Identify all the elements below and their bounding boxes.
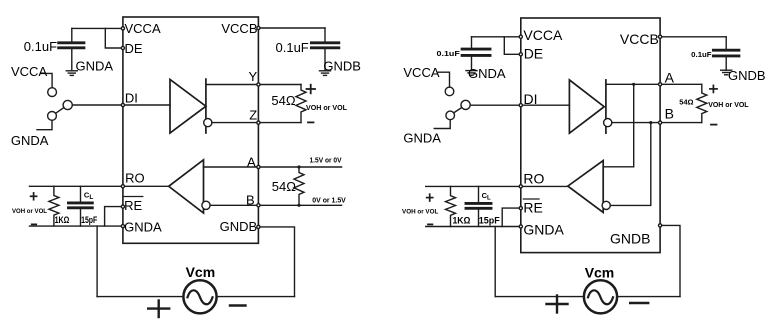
- svg-text:DE: DE: [524, 46, 543, 62]
- pin dot VCCA: [121, 27, 124, 30]
- wire Vcm bottom right: [217, 296, 295, 298]
- capacitor C4 0.1uF plates: [713, 50, 739, 56]
- wire GNDA drop to Vcm loop (right): [494, 227, 496, 297]
- source Vcm circle (right): [584, 280, 617, 313]
- capacitor CL bottom stub: [80, 209, 82, 226]
- svg-text:Z: Z: [249, 108, 257, 123]
- wire VCCA pin to bypass cap (right): [472, 36, 521, 38]
- svg-text:15pF: 15pF: [479, 215, 501, 225]
- wire DI inside box to driver (right): [521, 104, 570, 106]
- small plus RO load (right): [427, 194, 433, 201]
- pin dot VCCA (right): [519, 35, 522, 38]
- switch S1 wire from VCCA label: [41, 73, 53, 87]
- capacitor C2 bottom stub: [324, 49, 326, 71]
- svg-text:B: B: [246, 193, 255, 208]
- svg-text:RO: RO: [523, 170, 544, 186]
- minus sign Vcm: [230, 304, 246, 306]
- ground GNDA under C1: [66, 71, 77, 76]
- svg-text:0.1uF: 0.1uF: [276, 40, 309, 55]
- wire B output: [612, 122, 702, 124]
- pin dot VCCB (right): [659, 35, 662, 38]
- pin dot RE: [121, 205, 124, 208]
- svg-text:RO: RO: [125, 170, 145, 185]
- small minus B load: [711, 124, 717, 126]
- driver D1 output bar: [205, 79, 207, 133]
- resistor R1 54ohm driver load: [296, 85, 306, 123]
- switch S2 pole contact: [461, 100, 470, 109]
- svg-text:VCCA: VCCA: [11, 64, 47, 79]
- svg-text:GNDA: GNDA: [523, 221, 564, 237]
- pin dot GNDB: [257, 225, 260, 228]
- pin dot GNDB (right): [659, 224, 662, 227]
- svg-text:54Ω: 54Ω: [679, 97, 693, 106]
- capacitor C2 0.1uF plates: [311, 43, 338, 48]
- switch S1 arm: [56, 108, 64, 114]
- svg-text:VOH or VOL: VOH or VOL: [12, 208, 47, 215]
- small minus RO load: [32, 223, 36, 225]
- switch S1 throw contact GNDA: [48, 112, 57, 121]
- svg-text:VCCA: VCCA: [403, 65, 439, 80]
- wire VCCB to bypass cap (right): [660, 36, 726, 38]
- driver D2 triangle: [569, 80, 604, 133]
- wire VCCB to bypass cap: [258, 27, 325, 29]
- receiver inverting bubble (right): [602, 201, 610, 209]
- pin dot GNDA: [121, 225, 124, 228]
- source Vcm circle: [183, 280, 216, 313]
- wire A feedback vertical: [603, 84, 634, 167]
- IC box U1: [123, 17, 259, 243]
- svg-text:VCCA: VCCA: [125, 21, 161, 36]
- junction dot A feedback: [632, 83, 635, 86]
- resistor R4 54ohm load: [697, 84, 707, 122]
- pin dot RO (right): [519, 185, 522, 188]
- svg-text:1.5V or 0V: 1.5V or 0V: [310, 156, 342, 165]
- receiver R1 triangle: [169, 160, 204, 213]
- wire DI input (right): [470, 104, 521, 106]
- wire DI inside box to driver: [123, 104, 170, 106]
- driver D1 inverting bubble: [204, 119, 212, 127]
- capacitor CL2 15pF top stub: [478, 186, 480, 202]
- small minus RO load (right): [428, 223, 432, 225]
- svg-text:VOH or VOL: VOH or VOL: [708, 100, 749, 109]
- small minus Z load: [308, 121, 314, 123]
- wire ground rail under load (right): [426, 226, 521, 228]
- svg-text:GNDB: GNDB: [728, 68, 766, 83]
- driver D2 output bar: [605, 80, 607, 133]
- resistor R3 1Kohm load: [49, 186, 59, 226]
- svg-text:GNDA: GNDA: [124, 219, 162, 234]
- wire VCCA-DE strap: [105, 28, 123, 48]
- svg-text:0.1uF: 0.1uF: [24, 39, 57, 54]
- svg-text:0.1uF: 0.1uF: [437, 49, 461, 58]
- small plus RO load: [31, 193, 37, 200]
- resistor R2 54ohm receiver input: [294, 167, 304, 205]
- capacitor C2 0.1uF top stub: [324, 28, 326, 41]
- wire DI input: [72, 104, 123, 106]
- svg-text:GNDB: GNDB: [220, 219, 258, 234]
- svg-text:GNDA: GNDA: [76, 58, 114, 73]
- switch S2 wire to GNDA label: [434, 120, 450, 129]
- pin dot RO: [121, 185, 124, 188]
- pin dot B: [257, 204, 260, 207]
- svg-text:15pF: 15pF: [81, 215, 98, 225]
- driver D2 inverting bubble: [604, 119, 612, 127]
- capacitor CL2 15pF plates: [466, 203, 491, 208]
- svg-text:Vcm: Vcm: [186, 264, 216, 280]
- svg-text:DI: DI: [125, 91, 138, 106]
- switch S2 arm: [454, 108, 462, 113]
- svg-text:A: A: [665, 69, 675, 85]
- svg-text:1KΩ: 1KΩ: [55, 215, 70, 225]
- svg-text:Y: Y: [249, 69, 258, 84]
- wire Y output: [206, 84, 301, 86]
- wire Vcm bottom left: [97, 296, 183, 298]
- source Vcm sine (right): [588, 290, 613, 304]
- svg-text:RE: RE: [124, 198, 142, 213]
- plus sign Vcm (right): [547, 296, 568, 313]
- RE overline (right): [523, 198, 539, 200]
- pin dot DE: [121, 46, 124, 49]
- wire RO output (right): [426, 185, 521, 187]
- minus sign Vcm (right): [630, 302, 648, 304]
- capacitor C1 bottom stub: [71, 49, 73, 71]
- capacitor C1 0.1uF plates: [59, 43, 84, 48]
- junction dot B-R2: [297, 204, 300, 207]
- wire A input: [204, 166, 342, 168]
- pin dot A: [257, 165, 260, 168]
- pin dot B (right): [659, 121, 662, 124]
- svg-text:VOH or VOL: VOH or VOL: [306, 103, 347, 112]
- svg-text:VCCB: VCCB: [620, 31, 659, 47]
- IC box U2: [521, 18, 660, 253]
- junction dot B feedback: [649, 121, 652, 124]
- ground GNDB under C2: [320, 71, 331, 76]
- svg-text:VCCB: VCCB: [221, 21, 257, 36]
- small plus Y load: [307, 85, 316, 94]
- capacitor C4 bottom stub: [725, 57, 727, 70]
- capacitor C3 0.1uF top stub: [471, 37, 473, 48]
- wire RO inside box (right): [521, 185, 568, 187]
- capacitor CL 15pF top stub: [80, 186, 82, 201]
- pin dot GNDA (right): [519, 225, 522, 228]
- pin dot DE (right): [519, 53, 522, 56]
- ground GNDA under C3: [466, 71, 477, 76]
- svg-text:B: B: [665, 106, 674, 122]
- wire Z output: [212, 122, 301, 124]
- svg-text:RE: RE: [523, 200, 542, 216]
- wire RE tie-down strap: [105, 207, 123, 227]
- switch S1 throw contact VCCA: [48, 88, 57, 97]
- switch S1 wire to GNDA label: [37, 120, 52, 129]
- pin dot DI: [121, 103, 124, 106]
- pin dot RE (right): [519, 207, 522, 210]
- pin dot VCCB: [257, 26, 260, 29]
- svg-text:0.1uF: 0.1uF: [691, 50, 712, 59]
- svg-text:GNDA: GNDA: [403, 130, 441, 145]
- svg-text:GNDA: GNDA: [468, 66, 506, 81]
- wire Vcm up to GNDB: [258, 227, 294, 297]
- wire RE tie-down strap (right): [502, 208, 521, 226]
- pin dot Y: [257, 83, 260, 86]
- plus sign Vcm: [148, 301, 169, 318]
- wire VCCA-DE strap (right): [504, 37, 521, 55]
- pin dot DI (right): [519, 104, 522, 107]
- switch S2 wire from VCCA label: [438, 72, 449, 87]
- svg-text:DI: DI: [524, 91, 538, 107]
- receiver inverting bubble on B input: [202, 201, 210, 209]
- ground GNDB under C4: [721, 70, 732, 75]
- svg-text:A: A: [247, 154, 256, 169]
- source Vcm sine: [188, 290, 213, 304]
- capacitor C4 0.1uF top stub: [725, 37, 727, 49]
- pin dot Z: [257, 121, 260, 124]
- capacitor C3 0.1uF plates: [462, 49, 490, 55]
- wire Vcm bottom right (right): [617, 296, 680, 298]
- junction dot A-R2: [297, 165, 300, 168]
- pin dot A (right): [659, 83, 662, 86]
- svg-text:54Ω: 54Ω: [272, 179, 296, 194]
- wire VCCA pin to bypass cap: [72, 27, 123, 29]
- wire B feedback vertical: [610, 123, 651, 206]
- svg-text:54Ω: 54Ω: [271, 93, 295, 108]
- svg-text:Vcm: Vcm: [585, 265, 615, 281]
- wire GNDA drop to Vcm loop: [96, 226, 98, 297]
- wire RO output: [30, 185, 169, 187]
- switch S1 pole contact: [63, 100, 72, 109]
- small plus A load: [710, 85, 717, 92]
- resistor R5 1Kohm load (right): [446, 186, 456, 226]
- wire B input: [210, 204, 342, 206]
- wire ground rail under load: [30, 225, 123, 227]
- wire Vcm bottom left (right): [495, 296, 584, 298]
- svg-text:GNDA: GNDA: [11, 133, 49, 148]
- capacitor C1 0.1uF top stub: [71, 28, 73, 41]
- driver D1 triangle: [170, 79, 206, 133]
- svg-text:VCCA: VCCA: [523, 27, 563, 43]
- svg-text:VOH or VOL: VOH or VOL: [402, 209, 438, 216]
- capacitor CL2 bottom stub: [478, 210, 480, 227]
- switch S2 throw contact GNDA: [446, 111, 455, 120]
- wire Vcm up to GNDB (right): [660, 225, 680, 296]
- RE overline: [124, 196, 143, 198]
- svg-text:1KΩ: 1KΩ: [453, 215, 471, 225]
- svg-text:GNDB: GNDB: [323, 58, 361, 73]
- wire A output: [606, 83, 702, 85]
- capacitor CL 15pF plates: [69, 203, 93, 208]
- capacitor C3 bottom stub: [471, 57, 473, 71]
- svg-text:DE: DE: [125, 41, 143, 56]
- switch S2 throw contact VCCA: [445, 87, 454, 96]
- svg-text:0V or 1.5V: 0V or 1.5V: [312, 195, 346, 204]
- svg-text:GNDB: GNDB: [610, 230, 650, 246]
- receiver R2 triangle: [568, 161, 603, 213]
